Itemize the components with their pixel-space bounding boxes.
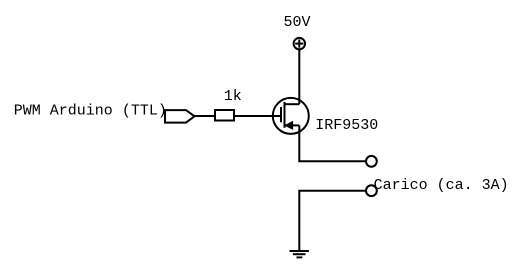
wire tag to resistor xyxy=(195,115,216,117)
transistor Q1 source lead (top) xyxy=(285,103,300,105)
wire terminal 2 to ground xyxy=(299,191,366,251)
ground xyxy=(290,251,309,257)
resistor R1 xyxy=(215,110,234,121)
transistor Q1 body circle xyxy=(273,98,309,134)
transistor Q1 arrow xyxy=(285,122,292,130)
wire supply to source xyxy=(298,50,300,105)
transistor Q1 drain lead (bottom) xyxy=(285,124,300,126)
terminal circle 1 xyxy=(366,156,377,167)
svg-text:1k: 1k xyxy=(224,88,242,105)
transistor Q1 gate bar xyxy=(280,107,282,122)
wire drain down xyxy=(299,125,366,161)
svg-text:50V: 50V xyxy=(284,14,311,31)
input connector tag xyxy=(165,110,195,123)
terminal circle 2 xyxy=(366,185,377,196)
wire resistor to gate xyxy=(234,115,281,117)
svg-text:IRF9530: IRF9530 xyxy=(315,117,378,134)
svg-text:Carico (ca. 3A): Carico (ca. 3A) xyxy=(374,177,509,194)
power terminal +50V xyxy=(294,38,305,49)
transistor Q1 channel bar xyxy=(284,102,286,128)
svg-text:PWM Arduino (TTL): PWM Arduino (TTL) xyxy=(14,102,167,119)
